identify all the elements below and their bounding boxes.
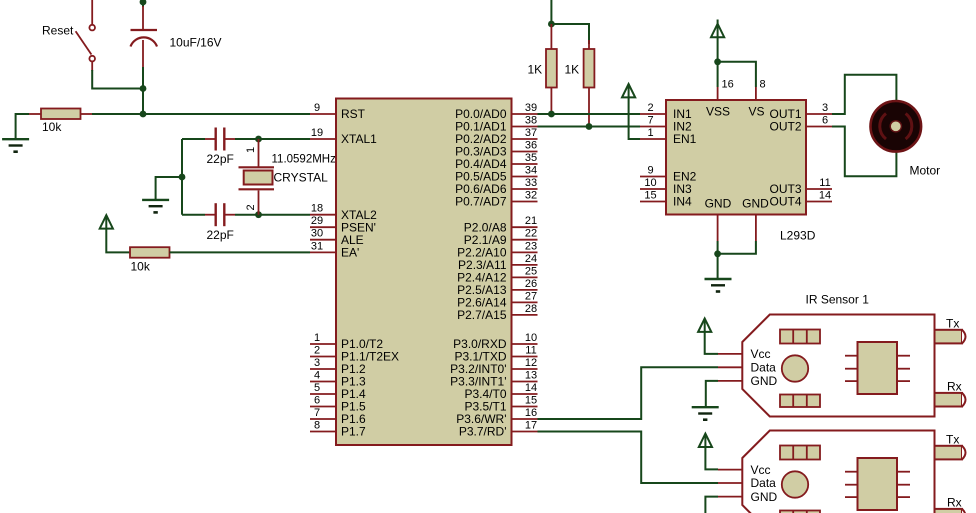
U1 pin 26 (P2.5/A13) [457, 278, 537, 297]
U1 pin 38 (P0.1/AD1) [455, 115, 537, 134]
IR sensor 2 IC pin left 3 [845, 496, 858, 498]
U1 pin 29 (PSEN') [310, 215, 376, 234]
svg-text:EA': EA' [341, 246, 359, 260]
IR sensor 2 Tx terminal [935, 432, 966, 459]
svg-text:11.0592MHz: 11.0592MHz [272, 154, 337, 166]
svg-text:XTAL1: XTAL1 [341, 132, 377, 146]
IR sensor 1 Rx terminal [935, 380, 966, 407]
ground GND3 [705, 279, 732, 292]
IR sensor 2 pin Vcc [718, 463, 771, 477]
svg-text:30: 30 [311, 228, 323, 240]
wire C1 to RST net [142, 67, 144, 114]
wire R2 to EA pin [170, 251, 311, 253]
resistor R2 10k [130, 247, 170, 258]
IR sensor 1 header block bottom [780, 395, 820, 408]
svg-text:38: 38 [525, 115, 537, 127]
IR sensor 1 IC chip [858, 342, 898, 394]
svg-text:2: 2 [245, 204, 257, 210]
lead R1 left [29, 113, 41, 115]
IR sensor 2 Rx terminal [935, 496, 966, 513]
svg-text:21: 21 [525, 215, 537, 227]
IR sensor 1 IC pin left 3 [845, 380, 858, 382]
wire power to IR2 Vcc [705, 447, 718, 469]
svg-text:8: 8 [314, 420, 320, 432]
U2 pin 11 (OUT3) [769, 177, 832, 196]
U1 pin 19 (XTAL1) [310, 127, 377, 146]
U1 pin 39 (P0.0/AD0) [455, 102, 537, 121]
IR sensor 2 pin GND [718, 490, 778, 504]
svg-text:10k: 10k [131, 260, 151, 274]
svg-text:34: 34 [525, 165, 537, 177]
U1 pin 24 (P2.3/A11) [458, 253, 537, 272]
power symbol EA pullup [100, 215, 113, 228]
node VSS/VS junction [714, 58, 721, 65]
U2 pin 6 (OUT2) [769, 115, 832, 134]
wire switch to cap bottom node [91, 61, 93, 71]
U2 pin 15 (IN4) [640, 190, 692, 209]
wire P3.7 to IR sensor 2 Data [538, 432, 719, 484]
node XTAL1 junction [255, 136, 262, 143]
svg-text:Vcc: Vcc [751, 463, 771, 477]
svg-text:33: 33 [525, 177, 537, 189]
capacitor C1 10uF/16V (electrolytic) [131, 6, 158, 68]
svg-text:P1.7: P1.7 [341, 425, 366, 439]
U1 pin 3 (P1.2) [310, 357, 366, 376]
svg-text:18: 18 [311, 203, 323, 215]
crystal X1 11.0592MHz [239, 167, 275, 189]
svg-text:9: 9 [647, 165, 653, 177]
svg-text:3: 3 [822, 102, 828, 114]
svg-text:EN1: EN1 [673, 132, 697, 146]
node XTAL2 junction [255, 211, 262, 218]
U2 pin 2 (IN1) [640, 102, 692, 121]
svg-text:22: 22 [525, 228, 537, 240]
svg-text:IR Sensor 1: IR Sensor 1 [806, 293, 870, 307]
IR sensor 2 body [742, 431, 934, 513]
U1 pin 1 (P1.0/T2) [310, 332, 383, 351]
svg-text:9: 9 [314, 102, 320, 114]
svg-text:2: 2 [314, 345, 320, 357]
U1 pin 5 (P1.4) [310, 382, 366, 401]
node RST junction [140, 111, 147, 118]
svg-text:1: 1 [245, 147, 257, 153]
wire IR1 GND to ground [706, 381, 718, 407]
svg-text:3: 3 [314, 357, 320, 369]
svg-text:7: 7 [314, 407, 320, 419]
svg-text:CRYSTAL: CRYSTAL [274, 171, 329, 185]
IR sensor 2 IC pin left 1 [845, 471, 858, 473]
lead R4 bottom [588, 88, 590, 127]
IR sensor 2 LED lens [782, 471, 808, 497]
U1 pin 13 (P3.3/INT1') [450, 370, 537, 389]
node rail/ground junction [179, 174, 186, 181]
svg-text:Data: Data [751, 476, 777, 490]
svg-text:1K: 1K [565, 63, 580, 77]
svg-text:1: 1 [647, 127, 653, 139]
IR sensor 1 pin Vcc [718, 347, 771, 361]
ground GND1 [2, 139, 29, 152]
wire P0.1 to IN2 [538, 126, 641, 128]
svg-text:VSS: VSS [706, 105, 730, 119]
svg-text:GND: GND [751, 490, 778, 504]
wire rail to C3 [182, 214, 205, 216]
U1 pin 12 (P3.2/INT0') [450, 357, 537, 376]
lead R1 right [81, 113, 93, 115]
U1 pin 15 (P3.5/T1) [464, 395, 537, 414]
U2 pin 14 (OUT4) [769, 190, 832, 209]
svg-text:1: 1 [314, 332, 320, 344]
U1 pin 14 (P3.4/T0) [464, 382, 537, 401]
svg-text:Rx: Rx [947, 380, 962, 394]
U1 pin 2 (P1.1/T2EX) [310, 345, 399, 364]
svg-text:17: 17 [525, 420, 537, 432]
U1 pin 34 (P0.5/AD5) [455, 165, 537, 184]
svg-text:OUT4: OUT4 [769, 195, 801, 209]
U2 pin 16 (VSS) [706, 79, 734, 119]
U2 pin 10 (IN3) [640, 177, 692, 196]
lead R3 bottom [550, 88, 552, 115]
U1 pin 28 (P2.7/A15) [457, 303, 537, 322]
IR sensor 2 IC pin right 1 [897, 471, 910, 473]
U1 pin 23 (P2.2/A10) [457, 240, 537, 259]
wire ground to R1 [16, 114, 29, 139]
U2 pin 3 (OUT1) [769, 102, 832, 121]
wire VCC to reset switch [91, 0, 93, 25]
svg-text:28: 28 [525, 303, 537, 315]
wire power to IR1 Vcc [705, 332, 718, 354]
switch SW-Reset [76, 25, 95, 62]
U1 pin 30 (ALE) [310, 228, 364, 247]
svg-text:32: 32 [525, 190, 537, 202]
wire power to R2 [106, 229, 130, 253]
svg-text:11: 11 [819, 177, 830, 189]
svg-text:P0.7/AD7: P0.7/AD7 [455, 195, 507, 209]
node GND junction [714, 250, 721, 257]
ground GND4 [692, 407, 719, 420]
svg-text:4: 4 [314, 370, 320, 382]
U1 pin 4 (P1.3) [310, 370, 366, 389]
IR sensor 2 IC pin right 2 [897, 484, 910, 486]
svg-text:16: 16 [722, 79, 734, 91]
IR sensor 1 IC pin left 1 [845, 355, 858, 357]
U1 pin 33 (P0.6/AD6) [455, 177, 537, 196]
wire R1 to RST pin [92, 113, 310, 115]
op-amp U1 8051 MCU body [336, 99, 512, 446]
svg-text:Tx: Tx [946, 432, 959, 446]
wire XTAL left rail [181, 139, 183, 215]
svg-text:25: 25 [525, 265, 537, 277]
lead R3 top [550, 24, 552, 49]
svg-text:37: 37 [525, 127, 537, 139]
U1 pin 22 (P2.1/A9) [464, 228, 538, 247]
wire power to VSS and VS [717, 37, 719, 87]
wire C3 to XTAL2 [235, 214, 310, 216]
svg-text:Data: Data [751, 361, 777, 375]
IR sensor 2 IC pin left 2 [845, 484, 858, 486]
svg-text:1K: 1K [528, 63, 543, 77]
U1 pin 37 (P0.2/AD2) [455, 127, 537, 146]
U1 pin 9 (RST) [310, 102, 366, 121]
svg-text:19: 19 [311, 127, 323, 139]
svg-text:12: 12 [525, 357, 537, 369]
U1 pin 18 (XTAL2) [310, 203, 377, 222]
svg-text:15: 15 [525, 395, 537, 407]
lead R4 top [588, 40, 590, 49]
svg-text:31: 31 [311, 240, 323, 252]
wire power to EN1 [629, 97, 640, 139]
U1 pin 31 (EA') [310, 240, 359, 259]
svg-text:10: 10 [644, 177, 656, 189]
IR sensor 1 body [742, 315, 934, 417]
node R4/P0.1 junction [586, 123, 593, 130]
svg-text:39: 39 [525, 102, 537, 114]
node R3/P0.0 junction [548, 111, 555, 118]
svg-text:P2.7/A15: P2.7/A15 [457, 308, 507, 322]
crystal X1 pin 1 lead [258, 139, 260, 167]
U1 pin 27 (P2.6/A14) [457, 290, 537, 309]
resistor R1 10k [41, 109, 81, 120]
svg-text:36: 36 [525, 140, 537, 152]
IR sensor 1 IC pin left 2 [845, 368, 858, 370]
svg-text:GND: GND [751, 374, 778, 388]
U1 pin 17 (P3.7/RD') [459, 420, 538, 439]
IR sensor 1 IC pin right 2 [897, 368, 910, 370]
op-amp U2 L293D body [666, 100, 806, 215]
svg-text:7: 7 [647, 115, 653, 127]
svg-text:RST: RST [341, 107, 366, 121]
wire GND pins join [717, 241, 719, 279]
motor M1 [871, 101, 922, 152]
svg-text:13: 13 [525, 370, 537, 382]
IR sensor 1 LED lens [782, 355, 808, 381]
ground GND2 [142, 200, 169, 213]
U1 pin 25 (P2.4/A12) [457, 265, 537, 284]
svg-text:10k: 10k [42, 120, 62, 134]
svg-text:24: 24 [525, 253, 537, 265]
U2 pin 1 (EN1) [640, 127, 697, 146]
svg-text:Motor: Motor [910, 164, 941, 178]
U1 pin 8 (P1.7) [310, 420, 366, 439]
svg-text:IN4: IN4 [673, 195, 692, 209]
svg-text:27: 27 [525, 290, 537, 302]
U1 pin 7 (P1.6) [310, 407, 366, 426]
crystal X1 pin 2 lead [258, 191, 260, 215]
U2 GND pin (left) [705, 196, 732, 241]
IR sensor 1 Tx terminal [935, 316, 966, 343]
svg-text:OUT2: OUT2 [769, 120, 801, 134]
svg-text:Reset: Reset [42, 24, 74, 38]
wire junction to R4 top [551, 24, 589, 44]
U2 pin 7 (IN2) [640, 115, 692, 134]
svg-text:10: 10 [525, 332, 537, 344]
svg-text:Vcc: Vcc [751, 347, 771, 361]
svg-text:P3.7/RD': P3.7/RD' [459, 425, 507, 439]
IR sensor 2 header block top [780, 446, 820, 460]
U1 pin 35 (P0.4/AD4) [455, 152, 537, 171]
svg-text:10uF/16V: 10uF/16V [170, 36, 222, 50]
wire VCC to capacitor C1 [142, 0, 144, 7]
IR sensor 2 IC chip [858, 458, 898, 510]
resistor R4 1K [584, 49, 595, 88]
svg-text:6: 6 [314, 395, 320, 407]
capacitor C2 22pF [205, 128, 235, 151]
IR sensor 1 IC pin right 1 [897, 355, 910, 357]
svg-text:6: 6 [822, 115, 828, 127]
U1 pin 16 (P3.6/WR') [456, 407, 537, 426]
IR sensor 1 header block top [780, 330, 820, 344]
U1 pin 10 (P3.0/RXD) [453, 332, 537, 351]
svg-text:35: 35 [525, 152, 537, 164]
wire OUT1 to motor top [832, 75, 896, 114]
svg-text:22pF: 22pF [207, 152, 234, 166]
wire VCC to 1K resistors [550, 0, 552, 24]
svg-text:14: 14 [525, 382, 537, 394]
svg-text:29: 29 [311, 215, 323, 227]
wire power tick [717, 20, 719, 24]
svg-text:Tx: Tx [946, 316, 959, 330]
power symbol IR2 Vcc [699, 434, 712, 447]
U1 pin 21 (P2.0/A8) [464, 215, 538, 234]
svg-text:23: 23 [525, 240, 537, 252]
U2 pin 9 (EN2) [640, 165, 697, 184]
IR sensor 2 pin Data [718, 476, 776, 490]
IR sensor 1 pin GND [718, 374, 778, 388]
wire rail to C2 [182, 138, 205, 140]
U2 GND pin (right) [742, 196, 769, 241]
wire IR2 GND down [705, 497, 718, 513]
IR sensor 1 pin Data [718, 361, 776, 375]
wire OUT2 to motor bottom [832, 127, 896, 177]
U1 pin 36 (P0.3/AD3) [455, 140, 537, 159]
U1 pin 6 (P1.5) [310, 395, 366, 414]
wire P3.6 to IR sensor 1 Data [538, 367, 719, 419]
power symbol IR1 Vcc [698, 319, 711, 332]
svg-text:Rx: Rx [947, 496, 962, 510]
wire C2 to XTAL1 [235, 138, 310, 140]
power symbol EN1 [622, 84, 635, 97]
node switch/C1 junction [140, 85, 147, 92]
svg-text:8: 8 [760, 79, 766, 91]
wire rail ground stub [156, 177, 182, 199]
svg-text:22pF: 22pF [207, 228, 234, 242]
resistor R3 1K [546, 49, 557, 88]
IR sensor 2 header block bottom [780, 511, 820, 513]
svg-text:L293D: L293D [780, 229, 816, 243]
U2 pin 8 (VS) [748, 79, 765, 119]
IR sensor 1 IC pin right 3 [897, 380, 910, 382]
U1 pin 11 (P3.1/TXD) [454, 345, 537, 364]
power symbol VS supply [711, 24, 724, 37]
node 1K feed junction [548, 21, 555, 28]
svg-text:26: 26 [525, 278, 537, 290]
svg-text:2: 2 [647, 102, 653, 114]
U1 pin 32 (P0.7/AD7) [455, 190, 537, 209]
svg-text:GND: GND [742, 196, 769, 210]
svg-text:5: 5 [314, 382, 320, 394]
svg-text:16: 16 [525, 407, 537, 419]
svg-text:GND: GND [705, 196, 732, 210]
node VCC/C1 junction [140, 0, 147, 5]
svg-text:14: 14 [819, 190, 831, 202]
svg-text:15: 15 [644, 190, 656, 202]
svg-text:11: 11 [525, 345, 536, 357]
IR sensor 2 IC pin right 3 [897, 496, 910, 498]
svg-text:VS: VS [748, 105, 764, 119]
capacitor C3 22pF [205, 203, 235, 226]
wire P0.0 to IN1 [538, 113, 641, 115]
